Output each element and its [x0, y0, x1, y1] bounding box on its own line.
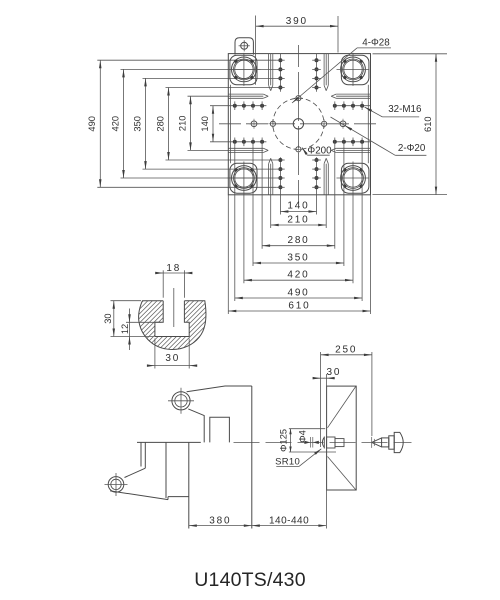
svg-text:2-Φ20: 2-Φ20 [398, 143, 426, 154]
svg-text:280: 280 [287, 235, 309, 246]
svg-text:U140TS/430: U140TS/430 [194, 569, 306, 591]
svg-text:4-Φ28: 4-Φ28 [362, 38, 390, 49]
svg-text:12: 12 [120, 324, 130, 334]
svg-text:280: 280 [155, 116, 165, 132]
svg-text:610: 610 [423, 116, 433, 132]
svg-text:30: 30 [327, 367, 342, 378]
svg-text:30: 30 [103, 313, 113, 323]
svg-text:350: 350 [287, 253, 309, 264]
svg-text:SR10: SR10 [275, 456, 300, 467]
svg-text:380: 380 [209, 515, 231, 526]
svg-text:32-M16: 32-M16 [388, 104, 422, 115]
svg-text:18: 18 [166, 263, 181, 274]
svg-text:Φ125: Φ125 [278, 429, 288, 452]
svg-text:420: 420 [287, 270, 309, 281]
svg-text:490: 490 [287, 287, 309, 298]
svg-text:610: 610 [288, 301, 310, 312]
svg-text:30: 30 [165, 353, 180, 364]
svg-text:140: 140 [287, 200, 309, 211]
svg-text:210: 210 [287, 214, 309, 225]
svg-text:Φ4: Φ4 [298, 430, 308, 443]
svg-text:Φ200: Φ200 [307, 145, 332, 156]
svg-text:350: 350 [132, 116, 142, 132]
svg-text:390: 390 [286, 16, 308, 27]
svg-text:250: 250 [335, 344, 357, 355]
svg-text:140: 140 [200, 116, 210, 132]
svg-text:420: 420 [110, 116, 120, 132]
svg-text:140-440: 140-440 [269, 515, 309, 526]
svg-text:490: 490 [87, 116, 97, 132]
svg-text:210: 210 [177, 116, 187, 132]
